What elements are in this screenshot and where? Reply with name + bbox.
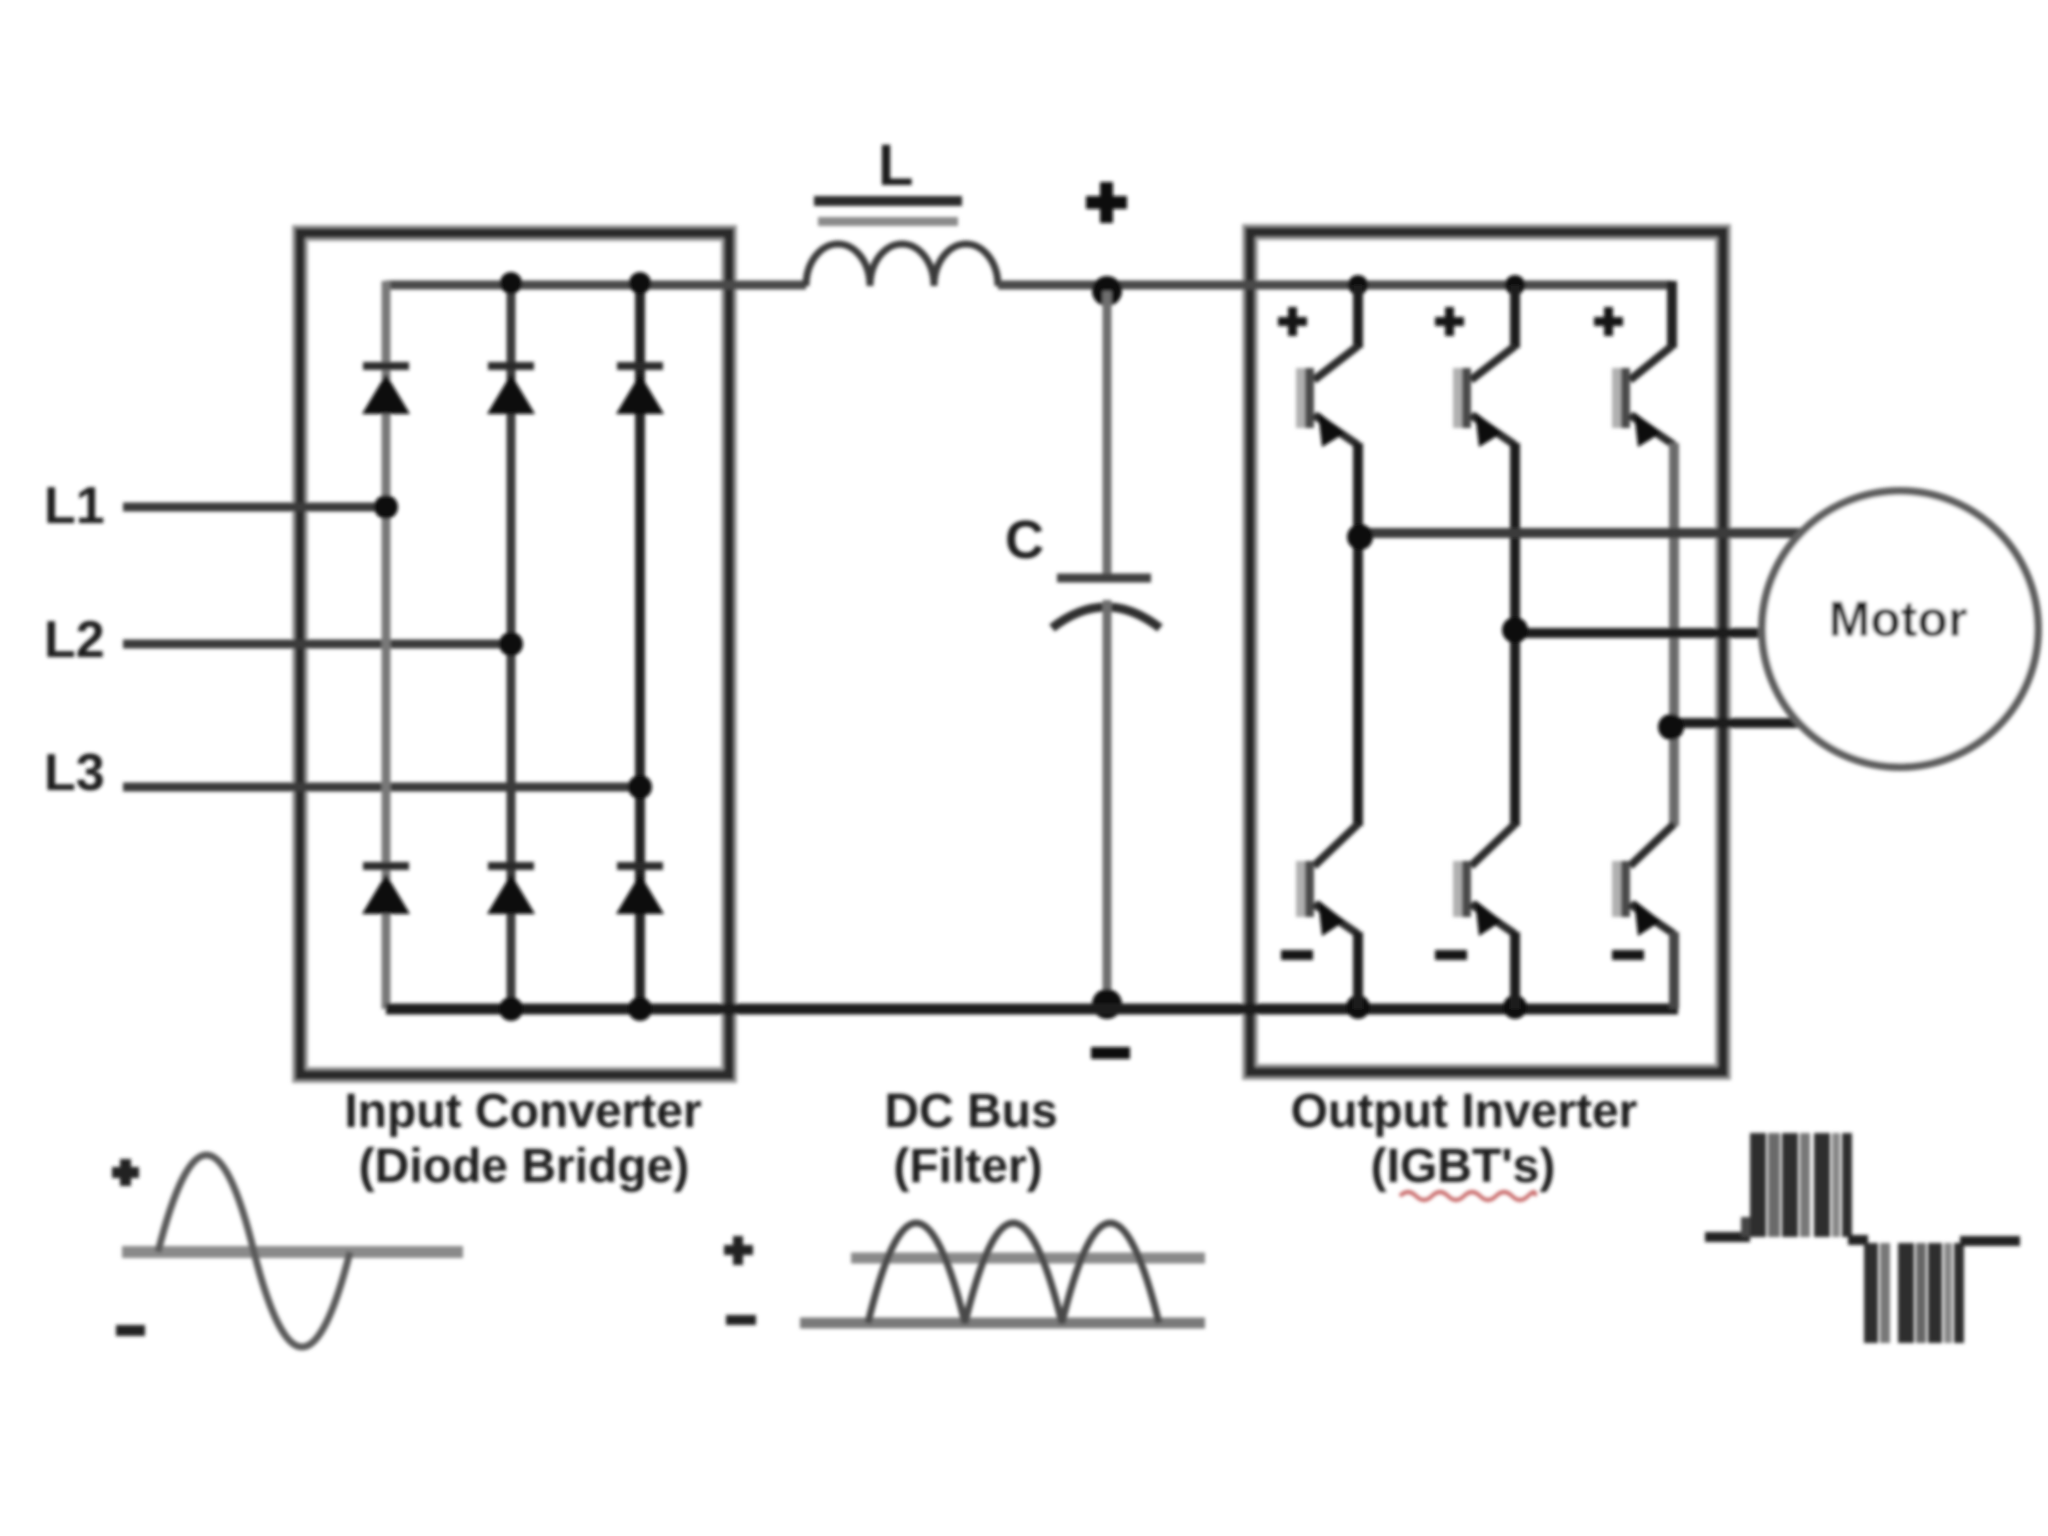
- minus label Q4: [1281, 950, 1313, 960]
- svg-text:DC Bus: DC Bus: [884, 1085, 1057, 1138]
- wire bridge top rail to inductor: [386, 281, 806, 290]
- waveform DC bus: minus label: [726, 1315, 756, 1325]
- waveform sine input: minus label: [116, 1325, 145, 1336]
- node bottom bus leg1: [1346, 995, 1370, 1019]
- plus label Q2: [1435, 307, 1464, 336]
- waveform DC bus: upper axis: [851, 1253, 1205, 1264]
- waveform sine input: plus label: [112, 1159, 139, 1186]
- minus label Q5: [1435, 950, 1467, 960]
- diode D4 bottom: [362, 862, 410, 914]
- svg-text:Motor: Motor: [1829, 591, 1968, 647]
- plus label Q3: [1594, 307, 1623, 336]
- waveform DC bus: rectified humps: [868, 1223, 1159, 1323]
- node L2-D2 junction: [499, 632, 523, 656]
- wire phase W to motor: [1674, 718, 1805, 728]
- transistor Q1 upper leg1: [1296, 285, 1358, 533]
- waveform DC bus: plus label: [724, 1236, 753, 1265]
- wire L3 input: [123, 783, 640, 792]
- wire L1 input: [123, 503, 386, 512]
- waveform DC bus: lower axis: [800, 1318, 1205, 1329]
- output inverter box: [1250, 232, 1723, 1072]
- node top rail leg1: [1348, 275, 1368, 295]
- transistor Q6 lower leg3: [1612, 723, 1674, 1009]
- wire bridge column 1: [382, 281, 391, 1009]
- waveform PWM output: left axis: [1705, 1232, 1750, 1242]
- capacitor C top plate: [1057, 574, 1151, 583]
- inductor L core bars: [814, 196, 962, 206]
- svg-text:(IGBT's): (IGBT's): [1371, 1140, 1556, 1193]
- wire phase U to motor: [1358, 528, 1805, 538]
- transistor Q2 upper leg2: [1453, 285, 1515, 633]
- svg-text:L3: L3: [44, 744, 105, 802]
- diode D6 bottom: [616, 862, 664, 914]
- plus label DC bus: [1086, 182, 1127, 223]
- node DC+ capacitor junction: [1092, 276, 1122, 306]
- transistor Q3 upper leg3: [1612, 281, 1674, 723]
- node bottom bus leg2: [1503, 995, 1527, 1019]
- wire DC- bottom bus: [386, 1004, 1678, 1015]
- svg-text:L: L: [878, 133, 913, 198]
- transistor Q5 lower leg2: [1453, 633, 1515, 1009]
- inductor L coil: [806, 244, 998, 286]
- waveform PWM output: zero crossing: [1848, 1235, 1868, 1245]
- svg-text:C: C: [1005, 510, 1044, 570]
- node top rail leg2: [1505, 275, 1525, 295]
- diode D5 bottom: [487, 862, 535, 914]
- waveform PWM output: positive pulse group: [1741, 1133, 1852, 1237]
- node top rail col2: [500, 272, 522, 294]
- wire capacitor top: [1103, 291, 1112, 575]
- motor M1: [1762, 491, 2038, 767]
- waveform PWM output: right axis: [1960, 1236, 2020, 1246]
- minus label Q6: [1612, 950, 1644, 960]
- node phase U: [1347, 524, 1373, 550]
- svg-text:(Filter): (Filter): [893, 1140, 1042, 1193]
- node top rail col3: [629, 272, 651, 294]
- svg-text:Input Converter: Input Converter: [344, 1085, 701, 1138]
- node phase W: [1658, 714, 1684, 740]
- capacitor C curved plate: [1052, 607, 1160, 628]
- wire bridge column 3: [635, 285, 645, 1009]
- node DC- capacitor junction: [1092, 989, 1122, 1019]
- input converter box: [300, 233, 729, 1075]
- wire capacitor bottom: [1103, 600, 1112, 1009]
- waveform sine input: sine curve: [158, 1155, 350, 1347]
- node bottom bus col2: [499, 997, 523, 1021]
- svg-text:Output Inverter: Output Inverter: [1291, 1085, 1638, 1138]
- node phase V: [1502, 617, 1528, 643]
- red squiggle under IGBT's: [1400, 1192, 1535, 1200]
- wire L2 input: [123, 640, 511, 649]
- wire inductor to inverter (DC+ bus): [998, 281, 1672, 290]
- plus label Q1: [1278, 307, 1307, 336]
- wire phase V to motor: [1515, 628, 1770, 638]
- wire bridge column 2: [507, 285, 516, 1009]
- diode D3 top: [616, 362, 664, 414]
- svg-text:L1: L1: [44, 477, 105, 535]
- waveform PWM output: negative pulse group: [1864, 1243, 1964, 1343]
- diode D2 top: [487, 362, 535, 414]
- svg-text:L2: L2: [44, 611, 105, 669]
- diode D1 top: [362, 362, 410, 414]
- transistor Q4 lower leg1: [1296, 533, 1358, 1009]
- svg-text:(Diode Bridge): (Diode Bridge): [359, 1140, 690, 1193]
- node L3-D3 junction: [628, 775, 652, 799]
- minus label DC bus: [1091, 1047, 1130, 1059]
- node bottom bus col3: [628, 997, 652, 1021]
- node L1-D1 junction: [374, 495, 398, 519]
- waveform sine input: axis: [122, 1246, 463, 1258]
